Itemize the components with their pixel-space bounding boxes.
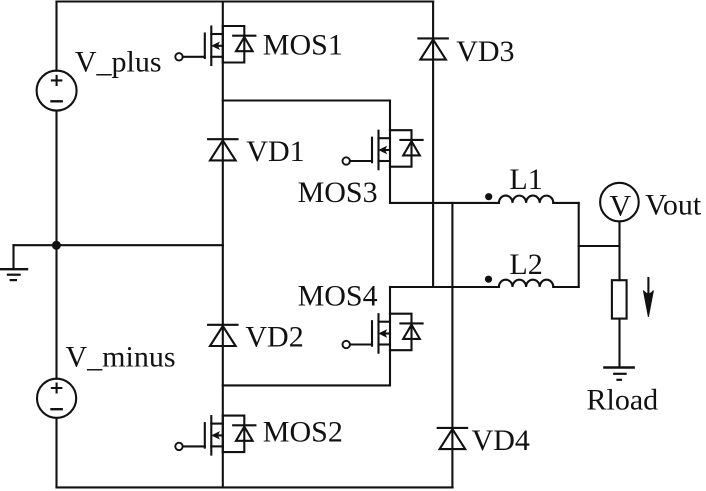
svg-text:Vout: Vout — [645, 189, 702, 222]
inductor L1 — [499, 196, 553, 203]
ground right — [604, 368, 633, 380]
wire L2 node down to MOS4 drain — [389, 287, 391, 314]
resistor Rload — [612, 280, 627, 318]
inductor L2 — [499, 280, 553, 287]
wire MOS3 source down to L1 node — [389, 167, 391, 203]
wire VD3 column — [432, 2, 434, 287]
transistor MOS3 — [343, 130, 423, 169]
wire L1 row lead-in — [390, 202, 499, 204]
svg-text:V_minus: V_minus — [66, 341, 176, 374]
svg-text:MOS4: MOS4 — [298, 280, 378, 313]
current arrow — [643, 278, 653, 317]
node L2 polarity dot — [485, 276, 492, 283]
svg-text:V_plus: V_plus — [75, 46, 162, 79]
voltmeter Vout — [600, 183, 639, 223]
svg-text:MOS1: MOS1 — [263, 29, 343, 62]
diode VD2 — [208, 325, 237, 346]
wire MOS4 source to center column — [223, 350, 390, 385]
source V_minus — [37, 379, 76, 418]
diode VD1 — [208, 139, 237, 160]
svg-text:VD2: VD2 — [245, 321, 303, 354]
source V_plus — [37, 71, 77, 111]
wire meter to resistor — [618, 221, 620, 280]
transistor MOS2 — [175, 416, 255, 455]
node L1 polarity dot — [485, 193, 492, 200]
wire bottom rail — [57, 486, 453, 488]
wire ground net horizontal — [14, 244, 223, 246]
svg-text:MOS2: MOS2 — [263, 416, 343, 449]
wire VD4 column — [451, 203, 453, 488]
svg-text:VD1: VD1 — [246, 135, 304, 168]
svg-text:L2: L2 — [509, 248, 542, 281]
transistor MOS4 — [343, 314, 423, 353]
wire resistor to ground — [618, 319, 620, 368]
svg-text:VD4: VD4 — [472, 424, 530, 457]
svg-text:Rload: Rload — [587, 384, 659, 417]
wire center column — [222, 2, 224, 488]
node ground junction dot — [52, 241, 61, 250]
wire L2 row lead-out — [553, 286, 578, 288]
ground left — [0, 245, 27, 280]
wire left rail lower — [55, 418, 57, 488]
svg-text:MOS3: MOS3 — [298, 176, 378, 209]
wire L2 row lead-in — [390, 286, 499, 288]
wire left rail upper — [55, 2, 57, 71]
svg-text:L1: L1 — [509, 163, 542, 196]
wire output vertical join — [578, 203, 580, 287]
svg-text:VD3: VD3 — [456, 35, 514, 68]
transistor MOS1 — [175, 26, 255, 65]
wire top rail — [57, 0, 434, 2]
wire center column to MOS3 drain — [223, 101, 390, 131]
wire left rail middle — [55, 111, 57, 379]
diode VD4 — [438, 428, 467, 449]
wire output to meter branch — [579, 245, 620, 247]
svg-text:V: V — [610, 190, 632, 223]
diode VD3 — [418, 38, 447, 59]
wire L1 row lead-out — [553, 202, 578, 204]
